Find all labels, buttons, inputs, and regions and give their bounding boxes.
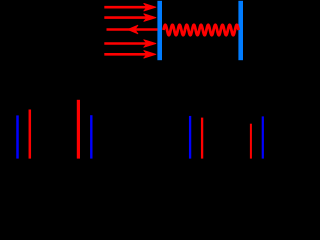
- spectrum group D: red line: [250, 124, 252, 159]
- spectrum group C: blue line: [189, 116, 191, 159]
- incident laser arrow 1: [104, 4, 156, 11]
- pump line (tall red): [77, 100, 80, 159]
- spectrum group D: blue line: [262, 116, 264, 158]
- spectrum group A: anti-Stokes line (blue): [16, 115, 19, 158]
- spectrum group B: blue sideband: [90, 115, 92, 158]
- left mirror M1: [157, 1, 162, 60]
- right mirror M2: [238, 1, 243, 60]
- incident laser arrow 4: [104, 40, 156, 47]
- reflected laser arrow 3: [107, 25, 158, 33]
- incident laser arrow 5: [104, 51, 156, 58]
- spectrum group C: red line: [201, 118, 203, 159]
- incident laser arrow 2: [104, 14, 156, 21]
- spectrum group A: Stokes line (red): [29, 110, 32, 159]
- intracavity spring (standing wave): [164, 25, 239, 35]
